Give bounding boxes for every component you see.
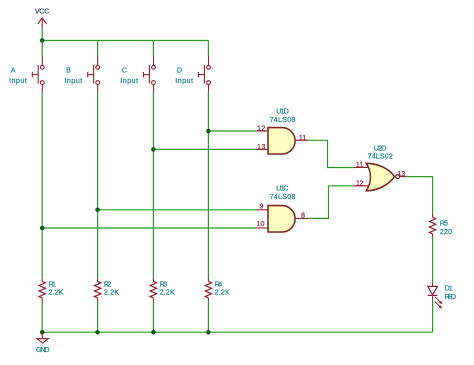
resistor R2 (94, 278, 100, 302)
svg-text:2.2K: 2.2K (104, 288, 119, 297)
junction GND node (40, 330, 45, 335)
svg-text:RED: RED (445, 292, 457, 301)
wire U1D output to U2D pin 11 (308, 140, 354, 167)
wire D to U1D pin 12 (208, 130, 257, 132)
svg-text:VCC: VCC (35, 6, 49, 15)
resistor R3 (150, 278, 156, 302)
wire column D upper (207, 41, 209, 57)
junction node A branch (40, 226, 45, 231)
NOR gate U2D input pin 11 stub (354, 167, 370, 169)
svg-text:220: 220 (440, 227, 452, 236)
svg-text:11: 11 (299, 133, 306, 142)
junction node C branch (151, 147, 156, 152)
junction R4 bottom (206, 330, 211, 335)
label R1 2.2K (49, 279, 64, 296)
svg-text:13: 13 (398, 169, 406, 178)
LED D1 (428, 283, 442, 309)
svg-text:B: B (66, 65, 71, 74)
svg-text:12: 12 (257, 123, 265, 132)
resistor R1 (39, 278, 45, 302)
switch SW_A (32, 56, 44, 92)
NOR gate U2D output pin 13 stub (400, 176, 407, 178)
NOR gate U2D input pin 12 stub (354, 185, 370, 187)
op-amp U1D input pin 12 stub (256, 130, 268, 132)
wire column B lower (97, 92, 99, 278)
junction R3 bottom (151, 330, 156, 335)
wire column C lower (152, 92, 154, 278)
svg-text:9: 9 (260, 202, 264, 211)
wire column D lower (207, 92, 209, 278)
wire R1 to rail (41, 301, 43, 332)
op-amp U1D input pin 13 stub (256, 148, 268, 150)
svg-text:74LS02: 74LS02 (368, 151, 393, 160)
wire column B upper (97, 41, 99, 57)
wire B to U1C pin 9 (98, 209, 257, 211)
wire A to U1C pin 10 (42, 227, 257, 229)
resistor R5 (429, 214, 435, 237)
label R3 2.2K (160, 279, 175, 296)
wire U2D output to R5 (407, 177, 433, 215)
wire R3 to rail (152, 301, 154, 332)
junction node B branch (95, 208, 100, 213)
svg-text:Input: Input (120, 76, 138, 85)
op-amp U1C output pin 8 stub (295, 217, 308, 219)
label U1C 74LS08 (270, 183, 296, 201)
label B Input (64, 65, 82, 85)
NOR gate U2D body (366, 163, 394, 191)
AND gate U1D body (268, 128, 295, 154)
junction R2 bottom (95, 330, 100, 335)
wire column C upper (152, 41, 154, 57)
svg-text:74LS08: 74LS08 (270, 192, 296, 201)
op-amp U1D output pin 11 stub (295, 139, 308, 141)
label R4 2.2K (215, 279, 230, 296)
wire R2 to rail (97, 301, 99, 332)
svg-text:C: C (122, 65, 127, 74)
svg-text:13: 13 (257, 142, 265, 151)
svg-text:11: 11 (356, 160, 364, 169)
NOR gate U2D output bubble (396, 175, 400, 179)
op-amp U1C input pin 10 stub (256, 227, 268, 229)
wire VCC stub (41, 28, 43, 41)
resistor R4 (205, 278, 211, 302)
svg-text:2.2K: 2.2K (49, 288, 64, 297)
svg-text:Input: Input (9, 76, 27, 85)
label D Input (175, 65, 193, 85)
switch SW_C (144, 56, 156, 92)
power symbol GND (36, 332, 50, 354)
svg-text:GND: GND (36, 345, 50, 354)
label D1 RED (445, 284, 457, 301)
junction node D branch (206, 129, 211, 134)
wire column A upper (41, 41, 43, 57)
label U1D 74LS08 (270, 106, 296, 124)
wire D1 to bottom rail (432, 300, 434, 332)
svg-text:2.2K: 2.2K (215, 288, 230, 297)
wire R5 to D1 (432, 237, 434, 282)
switch SW_B (88, 56, 100, 92)
wire column A lower (41, 92, 43, 278)
label R5 220 (440, 218, 452, 236)
wire U1C output to U2D pin 12 (308, 186, 354, 219)
power symbol VCC (35, 6, 49, 27)
wire R4 to rail (207, 301, 209, 332)
op-amp U1C input pin 9 stub (256, 209, 268, 211)
svg-text:2.2K: 2.2K (160, 288, 175, 297)
AND gate U1C body (268, 206, 295, 232)
svg-text:12: 12 (356, 178, 364, 187)
label A Input (9, 65, 27, 85)
svg-text:8: 8 (301, 210, 305, 219)
label U2D 74LS02 (368, 143, 393, 160)
svg-text:Input: Input (64, 76, 82, 85)
svg-text:A: A (11, 65, 16, 74)
label R2 2.2K (104, 279, 119, 296)
switch SW_D (199, 56, 211, 92)
svg-text:D: D (177, 65, 182, 74)
svg-text:10: 10 (257, 219, 265, 228)
wire bottom rail (42, 331, 432, 333)
junction VCC node (40, 38, 45, 43)
svg-text:74LS08: 74LS08 (270, 115, 296, 124)
label C Input (120, 65, 138, 85)
wire top rail (42, 40, 208, 42)
wire C to U1D pin 13 (153, 148, 257, 150)
svg-text:Input: Input (175, 76, 193, 85)
